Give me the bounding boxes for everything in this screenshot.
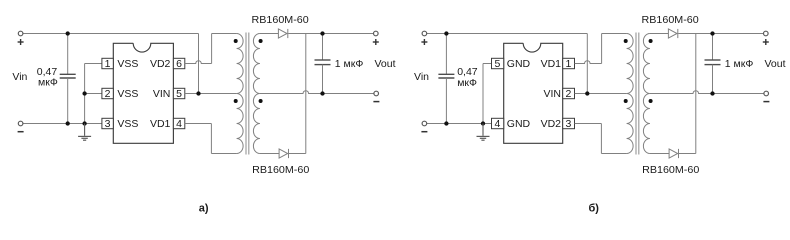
- op-amp U1 body MAX253 (circuit a): [113, 43, 173, 143]
- svg-text:5: 5: [176, 88, 182, 100]
- terminal + output (circuit a): [374, 31, 379, 36]
- polarity dot primary bottom half (circuit a): [234, 99, 238, 103]
- label Vin (circuit a): [12, 71, 27, 83]
- node - VIN rail junction (circuit b): [585, 91, 589, 95]
- svg-text:VSS: VSS: [117, 88, 138, 100]
- svg-text:4: 4: [176, 118, 182, 130]
- svg-text:GND: GND: [507, 58, 531, 70]
- pin label VD1 (circuit b): [541, 58, 562, 70]
- wire - diode bottom return vertical (circuit a): [289, 34, 306, 154]
- transformer T1 core (circuit b): [636, 33, 639, 155]
- svg-text:VD1: VD1: [541, 58, 562, 70]
- transformer T1 secondary winding (circuit a): [253, 34, 260, 154]
- node - ground junction (circuit b): [481, 121, 485, 125]
- caption a): [199, 202, 209, 214]
- node - VSS bus pin2 junction (circuit a): [82, 91, 86, 95]
- polarity mark - output (circuit b): [763, 101, 769, 103]
- svg-text:VSS: VSS: [117, 58, 138, 70]
- svg-text:VD1: VD1: [150, 118, 171, 130]
- transformer T1 secondary winding (circuit b): [643, 34, 650, 154]
- label Vin (circuit b): [414, 71, 429, 83]
- svg-text:б): б): [588, 202, 599, 214]
- node - output cap bottom junction (circuit a): [320, 91, 324, 95]
- terminal - output (circuit b): [764, 91, 769, 96]
- pin label VD1 (circuit a): [150, 118, 171, 130]
- wire - secondary top to diode (circuit b): [650, 33, 669, 35]
- pin label VSS pin2 (circuit a): [117, 88, 138, 100]
- wire - pin1 to primary top with hop (circuit b): [575, 34, 627, 64]
- value label mkF (circuit b): [457, 77, 477, 89]
- label Vout (circuit a): [375, 58, 396, 70]
- pin 3 box (circuit b): [563, 118, 575, 128]
- node - cap bottom junction (circuit a): [66, 121, 70, 125]
- wire - pin6 to primary top with hop (circuit a): [185, 34, 237, 64]
- terminal + input (circuit a): [18, 31, 23, 36]
- pin 1 box (circuit b): [563, 58, 575, 68]
- polarity dot primary top (circuit a): [234, 39, 238, 43]
- polarity mark + input (circuit b): [421, 39, 427, 45]
- pin 2 box (circuit a): [102, 88, 113, 98]
- svg-text:VD2: VD2: [541, 118, 562, 130]
- wire - secondary bottom to diode (circuit a): [260, 153, 279, 155]
- capacitor C-out 1uF (circuit b): [705, 34, 721, 94]
- pin 3 box (circuit a): [102, 118, 113, 128]
- pin 1 box (circuit a): [102, 58, 113, 68]
- diode VD1 RB160M-60 top (circuit b): [668, 29, 677, 38]
- svg-text:2: 2: [565, 88, 571, 100]
- svg-text:4: 4: [494, 118, 500, 130]
- svg-text:VD2: VD2: [150, 58, 171, 70]
- node - output cap top junction (circuit a): [320, 31, 324, 35]
- pin label GND pin5 (circuit b): [507, 58, 531, 70]
- svg-text:VIN: VIN: [153, 88, 171, 100]
- value label mkF (circuit a): [38, 77, 58, 89]
- wire - secondary center tap to - output with hop (circuit a): [260, 91, 374, 94]
- ground (circuit b): [477, 124, 490, 141]
- svg-text:1: 1: [565, 58, 571, 70]
- svg-text:5: 5: [494, 58, 500, 70]
- node - VSS bus bottom junction (circuit a): [82, 121, 86, 125]
- label RB160M-60 top (circuit a): [252, 14, 309, 26]
- transformer T1 primary winding (circuit b): [627, 34, 634, 154]
- pin label GND pin4 (circuit b): [507, 118, 531, 130]
- node - output cap top junction (circuit b): [710, 31, 714, 35]
- pin label VIN (circuit b): [543, 88, 561, 100]
- capacitor C-in 0,47uF (circuit b): [438, 34, 454, 124]
- wire - pin5 GND drop to rail (circuit b): [483, 64, 492, 124]
- svg-text:VSS: VSS: [117, 118, 138, 130]
- polarity dot secondary top (circuit a): [259, 39, 263, 43]
- transformer T1 core (circuit a): [246, 33, 249, 155]
- pin label VD2 (circuit b): [541, 118, 562, 130]
- caption b): [588, 202, 599, 214]
- terminal - input (circuit a): [18, 121, 23, 126]
- wire - diode top cathode to + output (circuit b): [678, 33, 763, 35]
- polarity dot secondary bottom half (circuit a): [259, 99, 263, 103]
- pin number 1 (circuit b): [565, 58, 571, 70]
- wire - negative input rail (circuit a): [23, 123, 102, 125]
- pin 5 box (circuit b): [492, 58, 504, 68]
- node - VIN rail junction (circuit a): [196, 91, 200, 95]
- pin number 6 (circuit a): [176, 58, 182, 70]
- svg-text:мкФ: мкФ: [38, 77, 58, 89]
- wire - pin2 VIN to primary center tap (circuit b): [575, 93, 627, 95]
- label Vout (circuit b): [765, 58, 786, 70]
- label RB160M-60 bottom (circuit a): [252, 164, 309, 176]
- value label 1 mkF (circuit b): [725, 58, 754, 70]
- terminal - output (circuit a): [374, 91, 379, 96]
- svg-text:а): а): [199, 202, 209, 214]
- svg-text:Vin: Vin: [414, 71, 429, 83]
- diode VD1 RB160M-60 bottom (circuit a): [279, 149, 288, 158]
- value label 1 mkF (circuit a): [335, 58, 364, 70]
- svg-text:1 мкФ: 1 мкФ: [335, 58, 364, 70]
- label RB160M-60 top (circuit b): [642, 14, 699, 26]
- ground (circuit a): [78, 124, 91, 141]
- pin number 3 (circuit a): [105, 118, 111, 130]
- pin number 4 (circuit b): [494, 118, 500, 130]
- svg-text:3: 3: [565, 118, 571, 130]
- svg-text:RB160M-60: RB160M-60: [642, 164, 699, 176]
- label RB160M-60 bottom (circuit b): [642, 164, 699, 176]
- value label 0,47 (circuit a): [37, 66, 58, 78]
- capacitor C-out 1uF (circuit a): [315, 34, 331, 94]
- wire - pin4 to primary bottom (circuit a): [185, 124, 237, 154]
- svg-text:GND: GND: [507, 118, 531, 130]
- pin 4 box (circuit b): [492, 118, 504, 128]
- wire - pin3 to primary bottom (circuit b): [575, 124, 627, 154]
- wire - secondary bottom to diode (circuit b): [650, 153, 669, 155]
- op-amp U1 body MAX253 (circuit b): [504, 43, 563, 143]
- svg-text:RB160M-60: RB160M-60: [252, 164, 309, 176]
- pin 4 box (circuit a): [173, 118, 184, 128]
- wire - diode bottom return vertical (circuit b): [679, 34, 696, 154]
- value label 0,47 (circuit b): [457, 66, 478, 78]
- wire - positive input rail to VIN drop (circuit a): [23, 34, 199, 94]
- svg-text:1: 1: [105, 58, 111, 70]
- diode VD2 RB160M-60 top (circuit a): [278, 29, 287, 38]
- pin number 2 (circuit a): [105, 88, 111, 100]
- transformer T1 primary winding (circuit a): [237, 34, 244, 154]
- pin number 5 (circuit a): [176, 88, 182, 100]
- polarity dot secondary bottom half (circuit b): [649, 99, 653, 103]
- svg-text:Vout: Vout: [765, 58, 786, 70]
- svg-text:2: 2: [105, 88, 111, 100]
- polarity dot secondary top (circuit b): [649, 39, 653, 43]
- pin label VD2 (circuit a): [150, 58, 171, 70]
- pin label VSS pin1 (circuit a): [117, 58, 138, 70]
- svg-text:Vin: Vin: [12, 71, 27, 83]
- pin number 5 (circuit b): [494, 58, 500, 70]
- terminal - input (circuit b): [422, 121, 427, 126]
- wire - negative input rail (circuit b): [427, 123, 492, 125]
- wire - VSS bus vertical (circuit a): [85, 64, 102, 124]
- pin number 2 (circuit b): [565, 88, 571, 100]
- wire - positive input rail to VIN drop (circuit b): [427, 34, 588, 94]
- capacitor C-in 0,47uF (circuit a): [60, 34, 76, 124]
- svg-text:3: 3: [105, 118, 111, 130]
- polarity mark - input (circuit b): [421, 131, 427, 133]
- node - cap top junction (circuit a): [66, 31, 70, 35]
- wire - secondary top to diode (circuit a): [260, 33, 279, 35]
- svg-text:VIN: VIN: [543, 88, 561, 100]
- wire - pin5 VIN to primary center tap (circuit a): [185, 93, 237, 95]
- wire - diode top cathode to + output (circuit a): [288, 33, 373, 35]
- pin 5 box (circuit a): [173, 88, 184, 98]
- polarity mark + input (circuit a): [18, 39, 24, 45]
- node - cap bottom junction (circuit b): [444, 121, 448, 125]
- pin number 3 (circuit b): [565, 118, 571, 130]
- svg-text:RB160M-60: RB160M-60: [252, 14, 309, 26]
- polarity mark + output (circuit b): [763, 39, 769, 45]
- svg-text:мкФ: мкФ: [457, 77, 477, 89]
- polarity dot primary top (circuit b): [624, 39, 628, 43]
- wire - secondary center tap to - output with hop (circuit b): [650, 91, 764, 94]
- polarity mark - input (circuit a): [18, 131, 24, 133]
- svg-text:Vout: Vout: [375, 58, 396, 70]
- pin label VIN (circuit a): [153, 88, 171, 100]
- terminal + input (circuit b): [422, 31, 427, 36]
- pin label VSS pin3 (circuit a): [117, 118, 138, 130]
- node - cap top junction (circuit b): [444, 31, 448, 35]
- polarity mark + output (circuit a): [373, 39, 379, 45]
- polarity mark - output (circuit a): [373, 101, 379, 103]
- polarity dot primary bottom half (circuit b): [624, 99, 628, 103]
- pin number 1 (circuit a): [105, 58, 111, 70]
- pin 2 box (circuit b): [563, 88, 575, 98]
- svg-text:RB160M-60: RB160M-60: [642, 14, 699, 26]
- diode VD2 RB160M-60 bottom (circuit b): [669, 149, 678, 158]
- svg-text:1 мкФ: 1 мкФ: [725, 58, 754, 70]
- node - output cap bottom junction (circuit b): [710, 91, 714, 95]
- svg-text:6: 6: [176, 58, 182, 70]
- terminal + output (circuit b): [764, 31, 769, 36]
- pin 6 box (circuit a): [173, 58, 184, 68]
- pin number 4 (circuit a): [176, 118, 182, 130]
